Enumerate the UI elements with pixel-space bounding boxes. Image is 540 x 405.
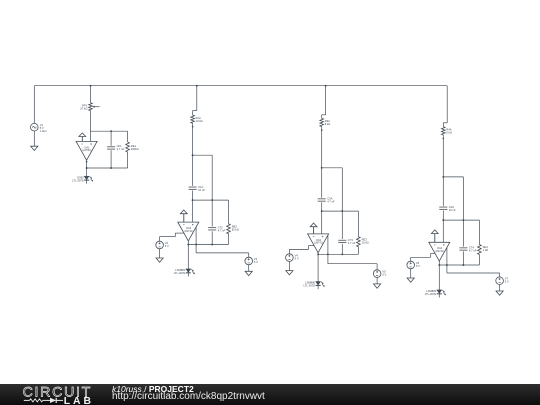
svg-text:LTL-307E: LTL-307E [174,271,186,275]
wire stage3 jog [322,115,326,119]
node stage2 out [187,244,189,246]
wire V+ pin stage4 [411,253,435,261]
svg-text:4.7 nF: 4.7 nF [218,228,226,232]
voltage source V2 [156,241,169,249]
node stage3 out [317,253,319,255]
footer url [112,392,265,402]
svg-text:10 kΩ: 10 kΩ [362,240,369,244]
wire rail A bottom stage4 [462,251,464,265]
wire rail B bottom stage3 [357,247,359,255]
wire stage2 jog [193,111,197,115]
node stage2 vpin cross [195,244,197,246]
wire stage4 tee1 [443,176,463,178]
power flag stage1 [79,133,86,142]
wire rail A bottom stage2 [211,231,213,244]
node stage3 vpin cross [327,253,329,255]
svg-text:LTL-307E: LTL-307E [72,178,84,182]
capacitor C3A [318,197,335,204]
ground GND1 [31,146,38,150]
wire stage2 tee2 [193,199,229,201]
svg-text:LTL-307E: LTL-307E [425,292,437,296]
wire RE1 rail top [127,131,129,142]
resistor R2A [191,115,203,123]
svg-text:(LM741): (LM741) [82,149,91,152]
resistor RE3 [357,237,369,247]
resistor RE1 [126,142,139,152]
svg-text:10 kΩ: 10 kΩ [196,119,203,123]
node stage1 top junction [110,130,112,132]
logo text CIRCUIT [23,384,92,400]
power flag stage4 [431,230,438,242]
svg-text:390kΩ: 390kΩ [131,147,139,151]
op-amp OA1 [76,141,97,160]
node stage2 tee2a [192,199,194,201]
logo wire 2 [43,399,50,401]
svg-text:(LM741): (LM741) [435,250,444,253]
footer title [112,385,194,394]
power flag stage3 [310,223,317,234]
node stage3 tee2b [341,210,343,212]
wire stage4 main lower [442,211,444,243]
voltage source V6 [407,261,420,269]
logo diode [50,397,56,402]
wire OA2 output [187,240,189,269]
svg-text:1 kΩ: 1 kΩ [483,248,489,252]
wire V+ pin stage3 [289,246,314,254]
wire OA1 output [86,160,88,176]
wire V4 to ground [288,261,290,270]
voltage source V5 [373,270,386,278]
wire V5 to ground [376,277,378,284]
wire OA3 output [317,252,319,281]
wire rail B top stage2 [228,200,230,224]
wire RP1 to opamp [90,111,92,142]
svg-text:LAB: LAB [64,395,94,405]
wire rail A bottom stage3 [341,244,343,255]
wire rail A stage2 [211,155,213,226]
svg-text:4.7 nF: 4.7 nF [348,241,356,245]
LED D1 [72,175,93,183]
wire stage3 main lower [321,202,323,234]
wire rail B top stage4 [478,220,480,244]
voltage source V7 [496,277,509,285]
wire stage4 bottom [439,264,479,266]
node stage3 tee1 [321,167,323,169]
resistor R3A [320,118,330,126]
wire bus end 4 [446,86,448,123]
node bus tap 1 [90,85,92,87]
wire V- pin stage3 [328,235,377,270]
capacitor C2A [189,185,206,192]
svg-text:57 kΩ: 57 kΩ [80,106,87,110]
capacitor CT2 [208,225,225,232]
logo text LAB [64,395,94,405]
svg-text:4.7 nF: 4.7 nF [327,200,335,204]
node stage4 tee2b [462,219,464,221]
resistor R4A [442,127,452,135]
ground GND6 [286,271,293,275]
wire top supply bus [34,85,447,87]
wire V1 branch [33,86,35,124]
wire stage2 main lower [192,191,194,223]
svg-text:4.7 nF: 4.7 nF [117,147,125,151]
wire stage2 tee1 [193,154,213,156]
ground GND4 [156,258,163,262]
svg-text:5 V: 5 V [165,244,169,248]
svg-text:5 V: 5 V [416,264,420,268]
wire V3 to ground [248,265,250,272]
wire RE1 rail bottom [127,152,129,168]
svg-text:1 kHz: 1 kHz [40,129,48,133]
logo wire 3 [56,399,63,401]
wire stage4 tee2 [443,219,479,221]
svg-text:5 V: 5 V [295,257,299,261]
capacitor CT4 [459,246,476,253]
wire stage3 main [321,127,323,198]
svg-text:5 kΩ: 5 kΩ [325,122,331,126]
node stage1 out junction [86,167,88,169]
wire stage2 bottom [188,244,228,246]
svg-text:4.7 nF: 4.7 nF [469,249,477,253]
wire stage3 tee2 [322,210,359,212]
wire rail A stage3 [341,168,343,239]
capacitor C4A [439,205,456,212]
ground GND5 [374,284,381,288]
svg-text:(LM741): (LM741) [314,242,323,245]
resistor RE4 [478,245,489,255]
wire V6 to ground [410,269,412,278]
voltage source V1 (AC) [31,123,48,133]
op-amp OA3 [308,234,329,253]
potentiometer RP1 [80,103,99,111]
node stage4 out [438,264,440,266]
svg-text:(LM741): (LM741) [184,230,193,233]
wire rail B bottom stage4 [478,255,480,266]
svg-text:5 kΩ: 5 kΩ [446,131,452,135]
LED D2 [174,268,195,276]
voltage source V3 [245,257,258,265]
node bus tap 2 [196,85,198,111]
wire V2 to ground [159,249,161,258]
logo resistor [29,398,42,401]
footer bar [0,384,540,405]
capacitor CT3 [338,238,355,245]
resistor RE2 [227,224,239,234]
wire stage4 jog [443,123,447,127]
wire stage1 feedback top [91,130,128,132]
wire CF1 rail top [110,131,112,146]
wire V7 to ground [499,285,501,292]
node stage2 tee2b [211,199,213,201]
ground GND8 [407,278,414,282]
LED D4 [425,289,446,297]
node stage4 tee2a [442,219,444,221]
wire rail B top stage3 [357,211,359,237]
wire V1 to ground [33,131,35,146]
svg-text:LTL-307E: LTL-307E [303,284,315,288]
wire rail B bottom stage2 [228,234,230,245]
svg-text:10 nF: 10 nF [449,208,456,212]
node stage4 railA bottom [462,264,464,266]
logo wire [24,399,30,401]
ground GND7 [496,291,503,295]
node stage2 railA bottom [211,244,213,246]
wire V- pin stage2 [196,227,249,257]
svg-text:5 V: 5 V [505,280,509,284]
wire rail A stage4 [462,177,464,247]
node stage4 vpin cross [446,264,448,266]
op-amp OA4 [429,242,450,261]
voltage source V4 [286,254,299,262]
node bus tap 3 [325,85,327,115]
LED D3 [303,281,324,289]
wire stage3 bottom [318,253,358,255]
svg-text:10 nF: 10 nF [198,188,205,192]
wire stage1 drop [90,86,92,103]
wire CF1 rail bottom [110,150,112,168]
wire V- pin stage4 [447,247,500,276]
node stage1 bottom junction [110,167,112,169]
node stage3 railA bottom [341,253,343,255]
wire stage2 main [192,123,194,186]
wire V+ pin stage2 [160,233,184,241]
power flag stage2 [180,210,187,222]
node stage3 tee2a [321,210,323,212]
wire stage4 main [443,135,445,206]
svg-text:5 V: 5 V [254,260,258,264]
op-amp OA2 [178,222,199,241]
svg-text:82 kΩ: 82 kΩ [232,227,239,231]
wire OA4 output [438,261,440,290]
svg-text:5 V: 5 V [382,273,386,277]
wire stage1 feedback bottom [87,167,128,169]
wire stage3 tee1 [322,167,343,169]
node stage4 tee1 [442,176,444,178]
node stage2 tee1 [192,154,194,156]
ground GND3 [245,271,252,275]
capacitor CF1 [107,144,124,151]
